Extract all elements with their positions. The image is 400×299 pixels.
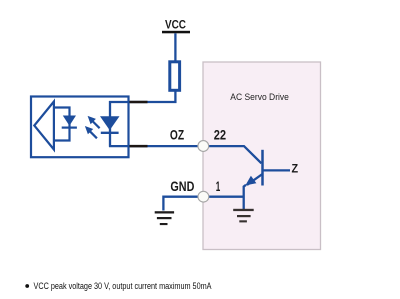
resistor R1 — [170, 62, 180, 91]
power VCC bar — [162, 31, 190, 34]
optocoupler U1 box — [31, 97, 129, 158]
node GND pin 1 circle — [198, 191, 209, 202]
svg-text:AC Servo Drive: AC Servo Drive — [230, 92, 289, 103]
optocoupler input arrow triangle — [34, 102, 54, 150]
power VCC label — [165, 17, 186, 31]
wire VCC to R1 — [174, 33, 176, 61]
transistor Q1 — [244, 150, 290, 210]
ground right — [233, 209, 254, 223]
label 1 — [216, 178, 221, 194]
LED D2 (optocoupler output side) — [100, 101, 129, 147]
optocoupler input bracket — [54, 108, 70, 141]
svg-text:22: 22 — [214, 127, 227, 143]
wire OZ — [130, 146, 261, 163]
label AC Servo Drive — [230, 92, 289, 103]
pin stub top (black) — [130, 101, 148, 104]
note text — [34, 281, 212, 291]
label 22 — [214, 127, 227, 143]
AC Servo Drive box — [203, 62, 321, 250]
label OZ — [170, 127, 185, 143]
svg-text:VCC peak voltage 30 V, output: VCC peak voltage 30 V, output current ma… — [34, 281, 212, 291]
svg-text:Z: Z — [292, 161, 299, 175]
svg-text:1: 1 — [216, 178, 221, 194]
svg-text:GND: GND — [170, 178, 194, 194]
wire GND — [163, 197, 243, 211]
label Z — [292, 161, 299, 175]
diode D1 (optocoupler input) — [62, 116, 77, 128]
pin stub bottom (black) — [130, 145, 148, 148]
ground left — [155, 211, 174, 225]
svg-text:OZ: OZ — [170, 127, 185, 143]
label GND — [170, 178, 194, 194]
LED emission arrows — [85, 116, 100, 138]
note bullet — [25, 284, 29, 288]
wire R1 bottom to optocoupler pin — [130, 90, 175, 102]
node OZ pin 22 circle — [198, 141, 209, 152]
svg-text:VCC: VCC — [165, 17, 186, 31]
